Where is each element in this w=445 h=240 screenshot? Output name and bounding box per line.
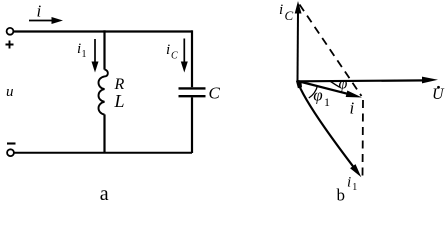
svg-text:i: i (37, 2, 42, 21)
svg-text:C: C (285, 8, 294, 23)
top wire (14, 30, 192, 32)
top terminal (left, +) (7, 28, 14, 35)
arrow for current i (29, 20, 54, 22)
vector i1 (phasor) (297, 81, 357, 172)
dashed line from i tip to i1 tip (362, 100, 365, 179)
svg-text:i: i (350, 99, 355, 118)
svg-text:u: u (6, 84, 14, 100)
svg-text:C: C (171, 51, 178, 62)
svg-text:a: a (100, 183, 109, 205)
angle arc phi (331, 81, 340, 87)
svg-text:L: L (114, 91, 125, 111)
svg-text:1: 1 (352, 182, 357, 193)
minus sign (7, 142, 16, 144)
svg-text:C: C (209, 84, 221, 103)
svg-text:i: i (166, 42, 170, 58)
dashed line from iC tip to i tip (300, 5, 362, 97)
svg-text:i: i (279, 2, 283, 18)
axis U (horizontal phasor) (298, 79, 427, 82)
capacitor C plates (179, 87, 206, 89)
vector i (phasor) (298, 81, 351, 94)
svg-text:φ: φ (339, 75, 348, 92)
wire: capacitor branch lower lead (191, 97, 193, 153)
svg-text:i: i (347, 175, 351, 191)
arrow i1 (branch current) (94, 39, 96, 63)
junction blob at origin (296, 81, 302, 89)
wire: capacitor branch upper lead (191, 30, 193, 87)
axis iC (vertical phasor) (297, 12, 300, 81)
arrow iC (capacitor current) (183, 39, 185, 64)
svg-text:φ: φ (313, 86, 322, 105)
svg-text:1: 1 (324, 95, 330, 109)
wire: RL branch upper lead (103, 30, 105, 69)
bottom wire (14, 152, 192, 154)
plus sign (6, 41, 14, 49)
svg-text:b: b (337, 185, 346, 204)
wire: RL branch lower lead (103, 114, 105, 153)
svg-text:1: 1 (82, 49, 87, 60)
bottom terminal (left, -) (7, 149, 14, 156)
inductor coil R,L (99, 69, 108, 114)
angle arc phi1 (309, 86, 318, 99)
